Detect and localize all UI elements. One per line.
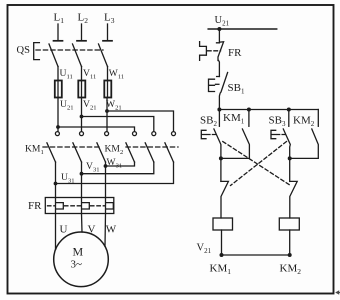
coil KM2 (279, 218, 299, 230)
svg-text:L1: L1 (54, 12, 65, 26)
coil KM1 (213, 218, 233, 230)
svg-text:SB3: SB3 (269, 115, 286, 128)
label U21 control (215, 15, 230, 27)
SB2 actuator dashed link (207, 134, 216, 136)
label V21 (83, 99, 97, 111)
label SB1 (228, 82, 245, 95)
svg-text:KM2: KM2 (105, 144, 124, 156)
wire coil KM1 down (221, 230, 223, 255)
pushbutton SB2 blade (214, 129, 221, 158)
thermal relay FR label (28, 200, 42, 212)
svg-text:L2: L2 (78, 12, 89, 26)
switch QS label (17, 45, 31, 56)
label W11 (109, 68, 124, 80)
label KM2 main (105, 144, 124, 156)
wire fuse2 down to node (81, 98, 83, 132)
FR heater element 2 (82, 198, 90, 214)
wire KM1 c1 down (55, 162, 57, 198)
linkage dashed KM1 (43, 146, 101, 148)
wire FR to motor W (104, 214, 107, 247)
label L1 (54, 12, 65, 26)
svg-text:L3: L3 (104, 12, 115, 26)
label KM2 aux (293, 115, 315, 128)
svg-text:U11: U11 (60, 68, 73, 80)
svg-text:KM1: KM1 (210, 263, 232, 277)
switch QS blade pole 3 (99, 44, 108, 67)
node U31 (54, 182, 58, 186)
SB3 actuator dashed link (277, 134, 286, 136)
node W21 tap (105, 109, 109, 113)
node U21 tap (56, 125, 60, 129)
wire tap U to KM2 contact 4 (58, 127, 135, 131)
pushbutton SB3 blade (283, 129, 290, 158)
label W motor (106, 224, 117, 236)
svg-text:3~: 3~ (71, 259, 83, 271)
svg-text:V31: V31 (86, 161, 100, 173)
contactor KM2 NC interlock contact (221, 181, 229, 218)
switch QS blade pole 1 (49, 44, 58, 67)
node bottom right (288, 253, 292, 257)
motor label M (73, 245, 84, 259)
fuse FU1 (57, 81, 59, 98)
label W21 (106, 99, 122, 111)
svg-text:V21: V21 (83, 99, 97, 111)
contactor KM2 aux blade (290, 129, 319, 158)
wire FR to motor U (55, 214, 57, 250)
wire KM2 c6 to U31 (56, 162, 174, 184)
wire top to FR contact (218, 29, 220, 43)
contactor KM2 aux stub (317, 110, 319, 127)
wire pole2 to fuse (81, 67, 83, 81)
interlock dashed cross B (231, 142, 287, 186)
wire to KM2 NC (220, 158, 222, 181)
label KM2 coil (280, 263, 302, 277)
label V21 bottom (197, 243, 212, 255)
thermal relay FR box (45, 198, 114, 214)
wire KM2 c5 to V31 (82, 162, 154, 174)
node control top (217, 27, 221, 31)
label L2 (78, 12, 89, 26)
SB3 actuator E (271, 130, 276, 138)
svg-text:U21: U21 (60, 99, 74, 111)
switch QS linkage dashed line (36, 49, 103, 51)
wire pole3 to fuse (107, 67, 109, 81)
label V motor (88, 224, 96, 236)
node SB1 bottom (217, 108, 221, 112)
contactor KM1 aux stub (248, 110, 250, 127)
svg-text:KM2: KM2 (280, 263, 302, 277)
SB1 actuator E (209, 79, 215, 91)
switch QS blade pole 2 (73, 44, 82, 67)
wire L1 drop (57, 24, 59, 41)
wire FR to SB1 (218, 61, 221, 77)
pushbutton SB2 stub (218, 110, 220, 127)
node V21 tap (80, 115, 84, 119)
FR trip element (200, 42, 207, 61)
pushbutton SB1 NC contact (217, 73, 228, 110)
contactor KM1 main contact 2 (80, 132, 84, 136)
svg-text:KM2: KM2 (293, 115, 315, 128)
pushbutton SB3 stub (288, 110, 290, 127)
label U21 (60, 99, 74, 111)
wire tap V to KM2 contact 5 (82, 117, 154, 132)
motor label 3~ (71, 259, 83, 271)
FR NC contact (217, 42, 224, 61)
contactor KM1 NC interlock contact (290, 181, 298, 218)
FR heater dashed linkage (48, 205, 106, 207)
label KM1 main (25, 144, 44, 156)
svg-text:W: W (106, 224, 117, 236)
contactor KM2 main contact 5 (152, 132, 156, 136)
wire to KM1 NC (289, 158, 291, 181)
contactor KM1 main contact 1 (55, 132, 59, 136)
svg-text:U21: U21 (215, 15, 230, 27)
node SB3 tap (287, 108, 291, 112)
label U motor (60, 224, 68, 236)
label L3 (104, 12, 115, 26)
wire L3 drop (107, 24, 109, 41)
svg-text:FR: FR (228, 47, 242, 59)
wire fuse3 down to node (106, 98, 108, 132)
label V11 (83, 68, 96, 80)
contactor KM2 main contact 4 (133, 132, 137, 136)
switch QS linkage bracket (34, 43, 40, 60)
SB1 actuator dashed link (216, 83, 222, 85)
svg-text:QS: QS (17, 45, 31, 56)
wire tap W to KM2 contact 6 (107, 111, 174, 131)
fuse FU2 (81, 81, 83, 98)
control feed line (208, 28, 277, 30)
FR trip dashed link (208, 50, 221, 52)
label U11 (60, 68, 73, 80)
label KM1 coil (210, 263, 232, 277)
FR heater element 1 (56, 198, 64, 214)
svg-text:U: U (60, 224, 68, 236)
node V31 (80, 172, 84, 176)
svg-text:W11: W11 (109, 68, 124, 80)
FR heater element 3 (106, 198, 114, 214)
svg-text:W31: W31 (107, 157, 123, 169)
node left branch join (219, 156, 223, 160)
interlock dashed cross A (223, 142, 291, 186)
wire FR to motor V (81, 214, 84, 233)
wire KM1 c3 down (105, 162, 107, 198)
linkage dashed KM2 (126, 146, 178, 148)
node right branch join (288, 156, 292, 160)
svg-text:M: M (73, 245, 84, 259)
node bottom left (220, 253, 224, 257)
label SB3 (269, 115, 286, 128)
label V31 (86, 161, 100, 173)
svg-text:V21: V21 (197, 243, 212, 255)
node W31 (104, 164, 108, 168)
wire coil KM2 down (289, 230, 291, 255)
label U31 (61, 172, 75, 184)
pointer arrow bottom-right (337, 292, 340, 294)
label KM1 aux (223, 112, 245, 125)
wire KM1 c2 down (81, 162, 83, 198)
svg-text:W21: W21 (106, 99, 122, 111)
label FR control (228, 47, 242, 59)
wire fuse1 down to node (57, 98, 59, 132)
svg-text:SB1: SB1 (228, 82, 245, 95)
label SB2 (200, 115, 217, 128)
svg-text:SB2: SB2 (200, 115, 217, 128)
wire pole1 to fuse (57, 67, 59, 81)
svg-text:V11: V11 (83, 68, 96, 80)
motor M circle (54, 232, 109, 287)
contactor KM1 main contact 3 (105, 132, 109, 136)
contactor KM1 aux blade (221, 129, 250, 158)
wire KM2 c4 to W31 (106, 162, 135, 166)
node KM1 aux tap (247, 108, 251, 112)
wire L2 drop (81, 24, 83, 41)
svg-text:KM1: KM1 (223, 112, 245, 125)
fuse FU3 (107, 81, 109, 98)
label W31 (107, 157, 123, 169)
control bottom bus (221, 254, 290, 256)
svg-text:FR: FR (28, 200, 42, 212)
contactor KM2 main contact 6 (172, 132, 176, 136)
svg-text:KM1: KM1 (25, 144, 44, 156)
control top bus (219, 109, 318, 111)
SB2 actuator E (201, 130, 206, 138)
svg-text:U31: U31 (61, 172, 75, 184)
